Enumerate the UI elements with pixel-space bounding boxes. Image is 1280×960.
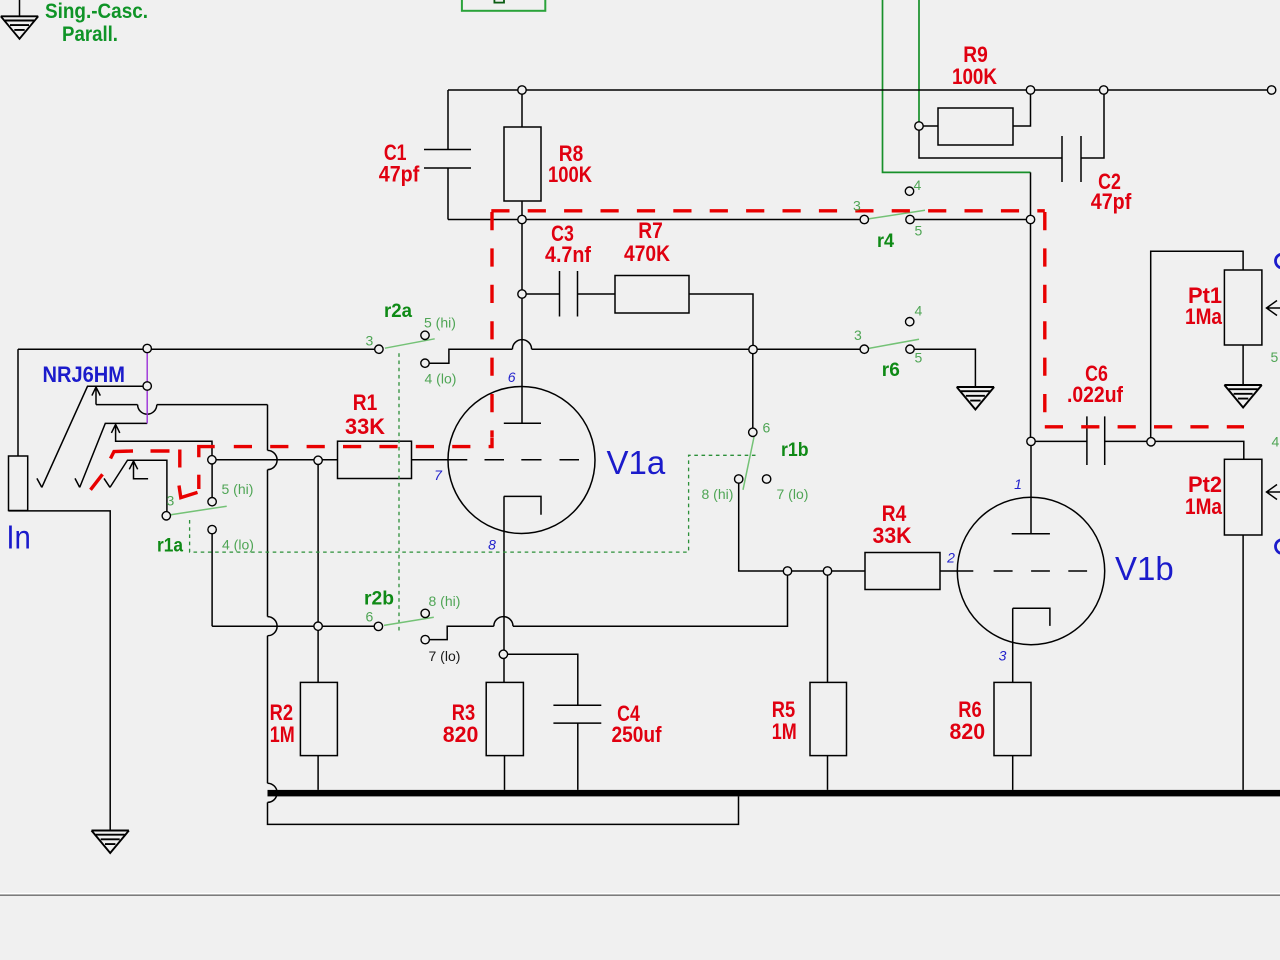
svg-text:3: 3 <box>853 198 861 214</box>
svg-text:7 (lo): 7 (lo) <box>777 486 809 502</box>
svg-text:4 (lo): 4 (lo) <box>425 371 457 387</box>
svg-text:5: 5 <box>915 223 923 239</box>
svg-text:4 (lo): 4 (lo) <box>222 537 254 553</box>
svg-text:1M: 1M <box>772 719 797 744</box>
svg-text:Parall.: Parall. <box>62 23 118 46</box>
svg-text:47pf: 47pf <box>379 162 420 187</box>
svg-text:8 (hi): 8 (hi) <box>702 486 734 502</box>
svg-text:6: 6 <box>508 369 516 385</box>
svg-text:1M: 1M <box>270 722 295 747</box>
svg-text:.022uf: .022uf <box>1067 382 1123 407</box>
svg-text:33K: 33K <box>345 414 386 439</box>
svg-text:470K: 470K <box>624 241 671 266</box>
svg-text:5: 5 <box>915 350 923 366</box>
svg-text:r4: r4 <box>877 231 894 252</box>
svg-text:NRJ6HM: NRJ6HM <box>43 362 126 387</box>
svg-text:5 (hi): 5 (hi) <box>424 315 456 331</box>
svg-text:1Ma: 1Ma <box>1185 494 1222 519</box>
svg-text:8: 8 <box>488 536 496 552</box>
svg-text:R7: R7 <box>638 218 663 243</box>
svg-text:1: 1 <box>1014 476 1022 492</box>
svg-text:In: In <box>6 519 31 556</box>
svg-text:33K: 33K <box>873 523 913 548</box>
svg-text:4: 4 <box>914 177 922 193</box>
svg-text:Sing.-Casc.: Sing.-Casc. <box>45 0 148 23</box>
svg-text:r1b: r1b <box>781 440 809 461</box>
svg-text:V1a: V1a <box>607 444 666 481</box>
svg-text:47pf: 47pf <box>1091 189 1132 214</box>
svg-text:r1a: r1a <box>157 535 183 556</box>
svg-text:100K: 100K <box>952 64 998 89</box>
svg-text:3: 3 <box>999 648 1007 664</box>
svg-text:6: 6 <box>366 609 374 625</box>
svg-text:1Ma: 1Ma <box>1185 304 1222 329</box>
svg-text:7: 7 <box>434 467 443 483</box>
svg-text:8 (hi): 8 (hi) <box>429 593 461 609</box>
svg-text:4: 4 <box>1272 434 1280 450</box>
svg-text:5 (hi): 5 (hi) <box>222 481 254 497</box>
svg-text:3: 3 <box>167 493 175 509</box>
svg-text:250uf: 250uf <box>612 722 662 747</box>
svg-text:5: 5 <box>1271 349 1279 365</box>
svg-text:3: 3 <box>854 327 862 343</box>
svg-text:3: 3 <box>366 333 374 349</box>
svg-text:820: 820 <box>443 722 479 747</box>
svg-text:V1b: V1b <box>1115 550 1174 587</box>
svg-text:R1: R1 <box>353 390 378 415</box>
svg-text:6: 6 <box>763 420 771 436</box>
svg-text:r2a: r2a <box>384 301 412 322</box>
svg-text:r6: r6 <box>882 360 900 381</box>
svg-text:2: 2 <box>946 550 955 566</box>
svg-text:820: 820 <box>950 719 986 744</box>
svg-text:4.7nf: 4.7nf <box>545 242 591 267</box>
svg-text:r2b: r2b <box>364 589 394 610</box>
svg-text:7 (lo): 7 (lo) <box>429 648 461 664</box>
svg-text:100K: 100K <box>548 162 593 187</box>
svg-text:4: 4 <box>915 303 923 319</box>
